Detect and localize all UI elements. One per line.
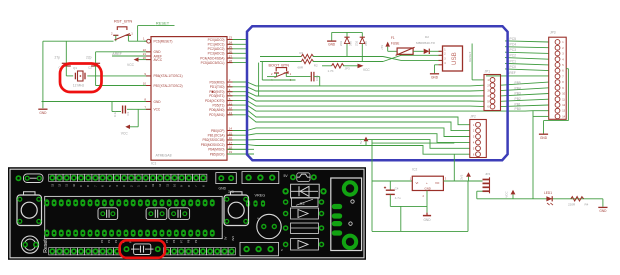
wire JP3 pin14 to ground — [539, 69, 569, 140]
svg-text:C4: C4 — [395, 186, 399, 190]
svg-text:JP3: JP3 — [550, 30, 556, 34]
net label RESET vertical to JP1 — [468, 44, 484, 80]
svg-text:R1: R1 — [300, 51, 304, 55]
svg-text:4: 4 — [444, 62, 446, 65]
IC1 pin 7 VCC — [144, 106, 161, 112]
svg-text:20: 20 — [143, 56, 147, 60]
svg-text:USB: USB — [451, 52, 458, 65]
PCB socket top pad row — [44, 199, 214, 206]
supply 3V3 arrow — [460, 172, 471, 181]
svg-text:2: 2 — [473, 130, 475, 133]
svg-text:PD5(T1): PD5(T1) — [212, 103, 224, 107]
svg-text:PB6(XTAL1/TOSC1): PB6(XTAL1/TOSC1) — [154, 74, 183, 78]
svg-text:PC1(ADC1): PC1(ADC1) — [208, 43, 225, 47]
resistor R2 68R — [260, 59, 383, 69]
IC1 pin 4 PD2(INT0) — [209, 88, 247, 94]
supply +5V at fuse — [380, 42, 390, 52]
svg-text:VCC: VCC — [121, 132, 129, 136]
resistor R1 68R — [260, 51, 383, 59]
svg-text:VO: VO — [435, 181, 440, 185]
IC1 pin 1 PC6(RESET) — [143, 37, 173, 44]
svg-text:D2: D2 — [425, 35, 429, 39]
connector JP1 — [484, 70, 501, 111]
svg-text:10: 10 — [143, 82, 147, 86]
svg-text:VCC: VCC — [505, 191, 509, 198]
svg-text:ATMEGA8: ATMEGA8 — [156, 153, 172, 157]
IC1 pin 6 PD4(XCK/T0) — [205, 97, 247, 103]
svg-text:5: 5 — [487, 100, 489, 103]
svg-text:25: 25 — [229, 45, 233, 49]
highlight blue outline — [247, 26, 508, 160]
svg-text:PB4(MISO): PB4(MISO) — [208, 148, 224, 152]
IC1 pin 17 PB3(MOSI/OC2) — [201, 141, 247, 147]
svg-text:F1: F1 — [391, 36, 395, 40]
wire XTAL1 — [66, 75, 151, 77]
connector JP2 — [470, 115, 487, 158]
svg-text:1: 1 — [131, 32, 133, 36]
svg-text:PC3: PC3 — [510, 48, 517, 52]
ground LED rail right — [598, 199, 607, 213]
svg-text:JP3: JP3 — [345, 67, 351, 71]
svg-text:3: 3 — [562, 53, 564, 56]
zener diode ZD1 — [339, 32, 353, 56]
svg-text:17: 17 — [229, 141, 233, 145]
svg-text:12: 12 — [229, 106, 233, 110]
ground for zener diodes — [327, 32, 336, 46]
wire regulator output — [443, 154, 482, 181]
svg-text:2: 2 — [423, 194, 425, 198]
diode LED1 — [544, 191, 553, 205]
svg-text:MBR0540-TR: MBR0540-TR — [416, 41, 436, 45]
wire reset to IC pin1 — [128, 26, 155, 42]
svg-text:PD4(XCK/T0): PD4(XCK/T0) — [205, 99, 224, 103]
svg-text:3V6: 3V6 — [364, 41, 368, 46]
diode D2 MBR0540 — [413, 35, 441, 54]
wire IC VCC pin7 — [133, 108, 151, 110]
svg-text:P9: P9 — [194, 239, 198, 243]
wire regulator input — [372, 180, 412, 182]
wire vertical jog right of IC — [258, 63, 260, 96]
PCB diode D1 footprint — [282, 184, 326, 198]
svg-text:Reset: Reset — [43, 239, 49, 253]
wire XTAL2 — [96, 85, 151, 87]
svg-text:6: 6 — [487, 106, 489, 109]
IC1 pin 22 GND — [143, 48, 162, 54]
svg-text:JP1: JP1 — [485, 70, 491, 74]
wire GND pin22 — [96, 51, 151, 53]
svg-text:5: 5 — [562, 64, 564, 67]
PCB highlighted jumper component — [124, 244, 161, 255]
capacitor C4 4.7u — [384, 181, 427, 206]
supply VCC on LED rail — [505, 190, 516, 199]
svg-text:PB0(ICP): PB0(ICP) — [211, 129, 224, 133]
PCB bottom silk labels — [100, 236, 235, 243]
svg-text:GND: GND — [540, 136, 548, 140]
IC1 pin 9 PB6(XTAL1/TOSC1) — [144, 72, 182, 78]
PCB crystal footprint — [21, 236, 38, 253]
capacitor C2 22p — [86, 55, 100, 85]
svg-text:JP4: JP4 — [485, 172, 491, 176]
svg-text:Q1: Q1 — [73, 66, 77, 70]
svg-text:RST_BTN: RST_BTN — [114, 18, 132, 23]
svg-text:PC0: PC0 — [510, 65, 517, 69]
svg-text:GND: GND — [423, 218, 431, 222]
ground GND1 — [38, 109, 47, 115]
PCB GND header — [216, 173, 237, 191]
svg-text:1: 1 — [444, 49, 446, 52]
wire regulator ground — [423, 191, 431, 223]
connector JP3 — [549, 30, 567, 119]
IC1 pin 11 PD5(T1) — [212, 101, 247, 107]
wire GND rail top-left — [43, 41, 114, 108]
wire crossover to USB — [383, 55, 443, 61]
svg-text:AVCC: AVCC — [154, 58, 163, 62]
fuse F1 — [388, 36, 415, 55]
svg-text:LED1: LED1 — [544, 191, 552, 195]
svg-text:6: 6 — [562, 70, 564, 73]
capacitor C3 0.1u — [112, 102, 133, 118]
svg-text:1: 1 — [143, 37, 145, 41]
svg-text:P1: P1 — [107, 239, 111, 243]
svg-text:11: 11 — [562, 98, 565, 101]
connector JP4 — [483, 172, 491, 193]
svg-text:3: 3 — [444, 58, 446, 61]
svg-text:2: 2 — [111, 32, 113, 36]
PCB top header pad row — [49, 174, 207, 181]
svg-text:3V3: 3V3 — [231, 236, 235, 241]
svg-text:BOOT_BTN: BOOT_BTN — [269, 63, 290, 67]
svg-text:24: 24 — [229, 41, 233, 45]
svg-text:R2: R2 — [314, 64, 318, 68]
svg-text:P2: P2 — [114, 239, 118, 243]
svg-text:5V: 5V — [359, 140, 363, 144]
svg-text:14: 14 — [229, 127, 233, 131]
svg-text:PC0(ADC0): PC0(ADC0) — [208, 38, 225, 42]
svg-text:PC5: PC5 — [510, 37, 517, 41]
svg-text:PB1: PB1 — [515, 102, 521, 106]
svg-text:GND: GND — [431, 75, 439, 79]
wire PB4 PB5 stubs — [227, 149, 254, 154]
IC1 pin 27 PC4(ADC4/SDA) — [200, 54, 247, 60]
svg-text:VREG: VREG — [255, 194, 266, 198]
svg-text:3: 3 — [487, 90, 489, 93]
svg-text:PB0: PB0 — [515, 107, 521, 111]
svg-text:FUSE: FUSE — [391, 41, 400, 45]
svg-text:GND: GND — [154, 100, 162, 104]
wire C2 top stub to GND pin — [95, 52, 97, 63]
capacitor C5 after BOOT_BTN — [286, 72, 319, 86]
svg-text:2: 2 — [562, 47, 564, 50]
svg-text:PB5(SCK): PB5(SCK) — [210, 152, 225, 156]
wire zener top rail — [332, 31, 363, 33]
svg-text:0.1u: 0.1u — [113, 111, 117, 117]
capacitor C1 27p — [55, 55, 71, 76]
svg-text:P5: P5 — [165, 239, 169, 243]
svg-text:13: 13 — [229, 111, 233, 115]
IC1 pin 5 PD3(INT1) — [209, 92, 247, 98]
svg-text:22p: 22p — [86, 55, 92, 59]
svg-text:8: 8 — [562, 81, 564, 84]
svg-text:5V: 5V — [224, 236, 228, 240]
svg-text:1: 1 — [487, 79, 489, 82]
svg-text:ZD2: ZD2 — [354, 40, 358, 46]
IC1 pin 21 AREF — [143, 52, 162, 58]
svg-text:14: 14 — [562, 115, 565, 118]
svg-text:10: 10 — [562, 93, 565, 96]
wire C1 top stub — [65, 41, 67, 63]
wire JP3 pin13 to LED line — [533, 111, 549, 199]
svg-text:PB1(OC1A): PB1(OC1A) — [208, 134, 225, 138]
svg-text:7: 7 — [562, 75, 564, 78]
svg-text:PC6(RESET): PC6(RESET) — [154, 40, 173, 44]
PCB jumper footprints — [98, 208, 190, 220]
wire feed down from bus — [372, 140, 454, 232]
highlight red box on PCB component — [120, 240, 165, 257]
svg-text:RESET: RESET — [468, 52, 472, 62]
IC1 pin 15 PB1(OC1A) — [208, 131, 247, 137]
svg-text:3V3: 3V3 — [460, 174, 464, 180]
wire JP1 to JP3 PB bus — [501, 81, 549, 111]
svg-text:2: 2 — [487, 84, 489, 87]
zener diode ZD2 — [354, 32, 368, 61]
svg-text:1: 1 — [562, 41, 564, 44]
PCB reset button — [17, 192, 49, 253]
IC1 pin 25 PC2(ADC2) — [208, 45, 247, 51]
svg-text:+: + — [426, 181, 428, 185]
IC1 pin 12 PD6(AIN0) — [209, 106, 247, 112]
svg-text:VCC: VCC — [154, 108, 161, 112]
svg-text:JP2: JP2 — [470, 115, 476, 119]
op IC1 ATMEGA8 body — [151, 37, 227, 166]
svg-text:2: 2 — [444, 53, 446, 56]
svg-text:100n: 100n — [315, 75, 319, 81]
svg-text:PB5: PB5 — [515, 81, 521, 85]
PCB power header 5V — [228, 172, 288, 194]
svg-text:PC1: PC1 — [510, 59, 517, 63]
svg-text:68R: 68R — [298, 65, 304, 69]
svg-text:IC1: IC1 — [151, 161, 156, 165]
IC1 pin 19 PB5(SCK) — [210, 150, 247, 156]
svg-text:220R: 220R — [568, 203, 576, 207]
IC1 pin 20 AVCC — [143, 56, 163, 62]
PCB bottom header pad row — [49, 248, 236, 255]
svg-text:23: 23 — [229, 36, 233, 40]
PCB VREG footprint — [246, 194, 265, 207]
IC1 pin 28 PC5(ADC5/SCL) — [201, 59, 247, 65]
svg-text:3: 3 — [473, 136, 475, 139]
PCB board outline — [8, 167, 366, 260]
svg-text:PC5(ADC5/SCL): PC5(ADC5/SCL) — [201, 61, 225, 65]
svg-text:PD3(INT1): PD3(INT1) — [209, 94, 224, 98]
svg-text:GND: GND — [424, 186, 430, 190]
svg-text:PC2(ADC2): PC2(ADC2) — [208, 47, 225, 51]
svg-text:4: 4 — [473, 142, 475, 145]
PCB bottom power header — [240, 242, 283, 255]
IC1 pin 18 PB4(MISO) — [208, 146, 247, 152]
svg-text:PB7(XTAL2/TOSC2): PB7(XTAL2/TOSC2) — [154, 84, 183, 88]
IC1 pin 14 PB0(ICP) — [211, 127, 247, 133]
IC1 pin 13 PD7(AIN1) — [209, 111, 247, 117]
svg-text:PD6(AIN0): PD6(AIN0) — [209, 108, 224, 112]
wire BOOT_BTN left drop — [262, 62, 295, 81]
svg-text:12: 12 — [562, 104, 565, 107]
svg-text:VCC: VCC — [127, 63, 135, 67]
svg-text:9: 9 — [562, 87, 564, 90]
PCB diode footprints — [283, 208, 325, 250]
svg-text:P6: P6 — [172, 239, 176, 243]
svg-text:1: 1 — [410, 177, 412, 181]
svg-text:GND: GND — [219, 186, 227, 190]
supply VCC at AVCC pin — [127, 57, 151, 67]
PCB fuse footprint — [290, 173, 317, 182]
svg-text:R4: R4 — [585, 203, 589, 207]
IC1 pin 10 PB7(XTAL2/TOSC2) — [143, 82, 183, 88]
svg-text:GND: GND — [599, 209, 607, 213]
pushbutton RST_BTN — [111, 18, 133, 41]
svg-text:PC4: PC4 — [510, 43, 517, 47]
supply VCC below C3 — [121, 109, 138, 135]
wire bundle PD0-PD5 to JP1 — [247, 82, 549, 111]
svg-text:6: 6 — [473, 153, 475, 156]
svg-text:16: 16 — [229, 136, 233, 140]
svg-text:IC2: IC2 — [412, 168, 417, 172]
svg-text:5V: 5V — [284, 174, 289, 178]
PCB electrolytic capacitor — [257, 214, 281, 238]
svg-text:P0: P0 — [100, 239, 104, 243]
svg-text:PC2: PC2 — [510, 54, 517, 58]
svg-text:PC3(ADC3): PC3(ADC3) — [208, 52, 225, 56]
resistor R5 1K to VCC — [322, 64, 370, 73]
svg-text:C2: C2 — [88, 66, 92, 70]
IC1 pin 23 PC0(ADC0) — [208, 36, 247, 42]
svg-text:1: 1 — [473, 124, 475, 127]
PCB IC socket outline — [45, 196, 223, 238]
svg-text:5: 5 — [473, 147, 475, 150]
IC1 pin 8 GND — [144, 98, 161, 104]
svg-text:P8: P8 — [187, 239, 191, 243]
svg-text:27: 27 — [229, 54, 233, 58]
wire PC bus to JP3 — [505, 37, 549, 71]
net label RESET — [155, 21, 174, 26]
IC1 pin 24 PC1(ADC1) — [208, 41, 247, 47]
svg-text:11: 11 — [229, 101, 232, 105]
svg-text:26: 26 — [229, 50, 233, 54]
net label AREF wire to JP3 — [486, 71, 549, 76]
svg-text:1: 1 — [290, 72, 292, 76]
svg-text:4: 4 — [487, 95, 489, 98]
svg-text:PD1(TXD): PD1(TXD) — [210, 85, 225, 89]
svg-text:15: 15 — [229, 131, 233, 135]
pushbutton BOOT_BTN — [269, 63, 292, 82]
wire IC GND pin8 — [42, 101, 152, 103]
svg-text:3V6: 3V6 — [349, 41, 353, 46]
svg-text:1.7K: 1.7K — [328, 69, 334, 73]
svg-text:+5V: +5V — [380, 45, 384, 50]
PCB top silk labels — [50, 183, 205, 186]
svg-text:+: + — [257, 217, 259, 221]
regulator IC2 — [410, 168, 447, 198]
svg-text:PC4(ADC4/SDA): PC4(ADC4/SDA) — [200, 56, 224, 60]
svg-text:28: 28 — [229, 59, 233, 63]
PCB resistor R3 footprint — [283, 198, 325, 207]
svg-text:PB3: PB3 — [515, 92, 521, 96]
ground below USB — [430, 65, 439, 80]
PCB power pad and fuse footprint — [16, 174, 44, 183]
IC1 pin 16 PB2(SS/OC1B) — [203, 136, 247, 142]
svg-text:PD7(AIN1): PD7(AIN1) — [209, 113, 224, 117]
connector X1 USB — [439, 46, 463, 71]
svg-text:PB4: PB4 — [515, 86, 521, 90]
svg-text:GND: GND — [39, 111, 47, 115]
svg-text:P7: P7 — [179, 239, 183, 243]
svg-text:PD0(RXD): PD0(RXD) — [209, 80, 224, 84]
wire bottom return — [372, 181, 468, 231]
wire LED rail — [477, 191, 603, 199]
highlight red box around crystal — [60, 64, 102, 93]
IC1 pin 3 PD1(TXD) — [210, 83, 247, 89]
svg-text:13: 13 — [562, 110, 565, 113]
wire bundle PD6-PB3 to JP2 staircase — [247, 110, 470, 154]
svg-text:2: 2 — [271, 72, 273, 76]
svg-text:ZD1: ZD1 — [339, 40, 343, 46]
svg-text:4: 4 — [562, 58, 564, 61]
crystal Q1 12 MHz — [73, 66, 85, 88]
svg-text:4.7u: 4.7u — [395, 196, 401, 200]
svg-text:C3: C3 — [126, 111, 130, 115]
supply VCC on JP2 feed wire — [359, 137, 368, 146]
svg-text:PB2(SS/OC1B): PB2(SS/OC1B) — [203, 138, 225, 142]
PCB USB connector — [331, 178, 362, 251]
PCB boot button — [224, 192, 249, 226]
svg-text:3: 3 — [445, 177, 447, 181]
svg-text:PB2: PB2 — [515, 97, 521, 101]
svg-text:27p: 27p — [55, 55, 61, 59]
svg-text:RESET: RESET — [156, 21, 170, 26]
net label AREF with wire — [112, 52, 151, 56]
svg-text:VCC: VCC — [363, 68, 370, 72]
resistor R4 220R — [568, 197, 589, 207]
svg-text:12 MHz: 12 MHz — [73, 84, 85, 88]
svg-text:GND: GND — [328, 43, 336, 47]
svg-text:PB3(MOSI/OC2): PB3(MOSI/OC2) — [201, 143, 225, 147]
svg-text:VI: VI — [416, 181, 419, 185]
IC1 pin 26 PC3(ADC3) — [208, 50, 247, 56]
PCB socket bottom pad row — [44, 230, 214, 237]
IC1 pin 2 PD0(RXD) — [209, 78, 247, 84]
